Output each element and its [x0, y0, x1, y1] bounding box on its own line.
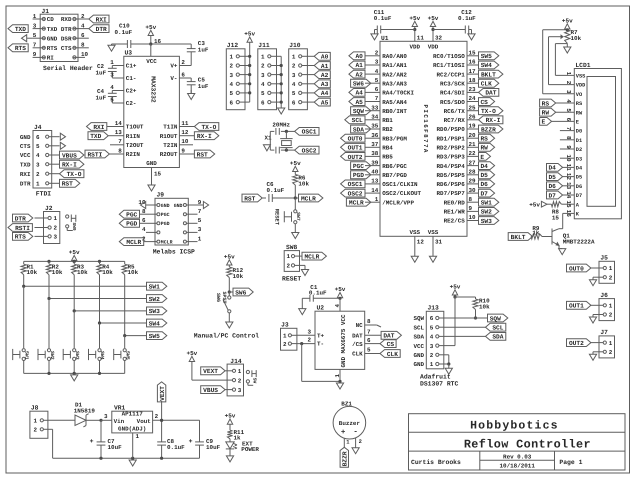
svg-text:19: 19	[469, 123, 477, 130]
wire U2 GND pin 1	[334, 369, 341, 383]
svg-text:+5v: +5v	[186, 350, 197, 357]
svg-text:25: 25	[469, 104, 477, 111]
svg-text:J6: J6	[600, 292, 608, 299]
net flag BKLT (Q1)	[508, 233, 532, 241]
net arrow (J4 pin 5)	[60, 142, 65, 149]
net flag OUT1 (J6)	[567, 301, 591, 309]
ground (C1)	[299, 309, 306, 315]
net flag OUT1 (U1 pin 37)	[341, 143, 365, 151]
svg-text:10k: 10k	[571, 35, 582, 42]
ground (power section)	[129, 460, 136, 466]
svg-text:RESET: RESET	[274, 209, 280, 226]
net flag RSTI (U3)	[85, 147, 124, 158]
svg-text:OUT0: OUT0	[348, 136, 363, 143]
title block	[409, 414, 626, 470]
svg-text:24: 24	[469, 95, 477, 102]
svg-text:C1: C1	[310, 284, 318, 291]
svg-text:C1+: C1+	[126, 63, 137, 70]
ground (U1 pin 31 VSS)	[429, 236, 442, 262]
svg-text:+5v: +5v	[409, 15, 420, 22]
svg-text:RX-I: RX-I	[486, 117, 501, 124]
connector J9 Melabs ICSP	[138, 192, 201, 256]
net flag OSC2 (X1)	[295, 146, 319, 154]
svg-text:T2IN: T2IN	[163, 142, 178, 149]
net flag OUT2 (U1 pin 38)	[341, 153, 365, 161]
svg-text:RX-I: RX-I	[62, 162, 77, 169]
wire GND rows (J13)	[444, 355, 451, 369]
+5v supply (power LED)	[225, 413, 236, 431]
svg-text:POWER: POWER	[241, 446, 259, 453]
svg-text:RS: RS	[542, 100, 550, 107]
wire +5v bus (switch pull-ups)	[24, 260, 125, 263]
ground (J6)	[589, 317, 596, 323]
svg-text:RC3/SCK: RC3/SCK	[440, 81, 465, 88]
svg-text:CS: CS	[387, 341, 395, 348]
ground (power LED)	[226, 456, 233, 462]
svg-text:2: 2	[261, 63, 265, 70]
net flag SW6 (manual)	[229, 288, 253, 296]
+5v supply (U1 pin 11)	[409, 15, 424, 41]
svg-text:1uF: 1uF	[96, 70, 107, 77]
svg-text:DAT: DAT	[485, 90, 496, 97]
resistor R10 10k	[455, 297, 490, 320]
IC U1 PIC16F877A	[380, 35, 467, 237]
svg-text:TX-O: TX-O	[201, 124, 216, 131]
net flag D6 (LCD pin 13)	[547, 182, 575, 190]
svg-text:30: 30	[469, 187, 477, 194]
svg-text:35: 35	[371, 123, 379, 130]
svg-text:4: 4	[261, 81, 265, 88]
svg-text:10/18/2011: 10/18/2011	[500, 463, 536, 470]
net flag OUT0 (J5)	[567, 264, 591, 272]
svg-text:A4: A4	[355, 90, 363, 97]
svg-text:RC7/RX: RC7/RX	[444, 117, 466, 124]
net flag SCL (J13)	[486, 323, 506, 331]
svg-text:D5: D5	[548, 174, 556, 181]
svg-text:R1IN: R1IN	[126, 133, 141, 140]
svg-text:AP1117: AP1117	[122, 411, 144, 418]
svg-text:1: 1	[334, 374, 341, 378]
svg-text:VDD: VDD	[576, 83, 586, 89]
net flag D5 (LCD pin 12)	[547, 173, 575, 181]
svg-text:DSR: DSR	[61, 35, 72, 42]
svg-text:26: 26	[469, 114, 477, 121]
svg-text:10: 10	[181, 138, 189, 145]
svg-text:D7: D7	[480, 190, 488, 197]
svg-text:V-: V-	[170, 75, 177, 82]
svg-text:1: 1	[230, 54, 234, 61]
connector J14	[227, 358, 243, 396]
svg-text:Vout: Vout	[137, 418, 151, 425]
net flag A4 (U1 pin 6)	[349, 89, 365, 97]
svg-text:GND MAX6675 VCC: GND MAX6675 VCC	[340, 314, 347, 367]
svg-text:RS: RS	[576, 101, 583, 107]
svg-text:-: -	[353, 428, 358, 436]
svg-text:3: 3	[33, 22, 37, 29]
svg-text:2: 2	[34, 427, 38, 434]
net flag SW6 (U1 pin 5)	[351, 79, 371, 87]
svg-text:0.1uF: 0.1uF	[167, 444, 185, 451]
svg-text:J2: J2	[45, 205, 53, 212]
svg-text:1: 1	[375, 196, 379, 203]
svg-text:5: 5	[33, 32, 37, 39]
svg-text:4: 4	[81, 22, 85, 29]
svg-text:C1-: C1-	[126, 75, 137, 82]
+5v supply (switch pull-ups)	[69, 249, 80, 261]
svg-text:GND: GND	[161, 203, 170, 209]
svg-text:10k: 10k	[27, 269, 38, 276]
svg-text:TXD: TXD	[15, 26, 26, 33]
svg-text:RD5/PSP5: RD5/PSP5	[437, 172, 466, 179]
svg-text:9: 9	[469, 205, 473, 212]
svg-text:10: 10	[469, 214, 477, 221]
svg-text:OSC2: OSC2	[302, 147, 317, 154]
net flag RX-I (U1 pin 26)	[479, 116, 503, 124]
resistor R4 10k	[97, 261, 113, 323]
ground (SW6)	[226, 322, 233, 328]
svg-text:17: 17	[469, 68, 477, 75]
pin stub D2 (LCD pin 9)	[560, 148, 574, 150]
svg-text:CD: CD	[47, 16, 55, 23]
svg-text:RA2/AN2: RA2/AN2	[382, 71, 407, 78]
svg-text:T1OUT: T1OUT	[126, 124, 144, 131]
net flag SW3 (U1 pin 10)	[479, 217, 499, 225]
svg-text:5: 5	[375, 77, 379, 84]
svg-text:GND: GND	[413, 361, 424, 368]
svg-text:T+: T+	[317, 333, 325, 340]
svg-text:OSC1: OSC1	[302, 129, 317, 136]
net flag E (LCD)	[540, 118, 575, 126]
svg-text:1: 1	[110, 59, 114, 66]
svg-text:32: 32	[435, 34, 443, 41]
svg-text:U1: U1	[381, 35, 389, 42]
svg-text:C2+: C2+	[126, 88, 137, 95]
svg-text:6: 6	[430, 315, 434, 322]
svg-text:5: 5	[430, 324, 434, 331]
svg-text:FTDI: FTDI	[36, 191, 52, 198]
svg-text:6: 6	[230, 99, 234, 106]
svg-text:11: 11	[181, 120, 189, 127]
ground (U1 pin 12 VSS)	[411, 236, 424, 262]
svg-text:RC4/SDI: RC4/SDI	[440, 90, 465, 97]
svg-text:RB5: RB5	[382, 154, 393, 161]
net flag A4 (J10)	[307, 89, 330, 97]
svg-text:+5v: +5v	[428, 15, 439, 22]
svg-text:1: 1	[292, 54, 296, 61]
svg-text:BKLT: BKLT	[511, 234, 526, 241]
connector J5	[590, 255, 615, 284]
svg-text:RA5/AN4: RA5/AN4	[382, 99, 407, 106]
svg-text:RE0/RD: RE0/RD	[444, 199, 466, 206]
pin stub D3 (LCD pin 10)	[560, 157, 574, 159]
connector J8	[30, 405, 48, 439]
svg-text:DTR: DTR	[20, 181, 31, 188]
pushbutton SW2	[38, 349, 55, 374]
svg-text:SQW: SQW	[413, 315, 424, 322]
svg-text:1k: 1k	[234, 435, 242, 442]
svg-text:SW1: SW1	[24, 351, 30, 360]
svg-text:CLK: CLK	[481, 81, 492, 88]
svg-text:9: 9	[33, 51, 37, 58]
svg-text:2: 2	[238, 377, 242, 384]
svg-text:SQW: SQW	[490, 315, 501, 322]
svg-text:1: 1	[609, 340, 613, 347]
svg-text:4: 4	[230, 81, 234, 88]
svg-text:Curtis Brooks: Curtis Brooks	[411, 459, 461, 466]
svg-text:PIC16F877A: PIC16F877A	[422, 105, 429, 154]
+5v supply (U1 pin 32)	[428, 15, 443, 41]
connector J2	[35, 205, 60, 244]
wire Vout rail	[153, 413, 200, 422]
svg-text:15: 15	[154, 170, 162, 177]
svg-text:3: 3	[230, 72, 234, 79]
svg-text:1: 1	[609, 303, 613, 310]
svg-text:RST: RST	[197, 151, 208, 158]
svg-text:OSC2: OSC2	[348, 190, 363, 197]
svg-text:2: 2	[609, 349, 613, 356]
svg-text:RC2/CCP1: RC2/CCP1	[437, 71, 466, 78]
svg-text:RXI: RXI	[20, 171, 31, 178]
svg-text:SW: SW	[251, 378, 257, 384]
svg-text:SW4: SW4	[481, 62, 492, 69]
svg-text:PGC: PGC	[161, 212, 170, 218]
net flag D7 (LCD pin 14)	[547, 191, 575, 199]
svg-text:R2IN: R2IN	[126, 151, 141, 158]
pushbutton SW3	[63, 349, 80, 374]
crystal X1 20MHz	[265, 122, 295, 154]
potentiometer R7 10k (LCD contrast)	[561, 29, 582, 47]
svg-text:SW5: SW5	[481, 53, 492, 60]
net flag TXD (U3)	[88, 129, 124, 140]
svg-text:RD0/PSP0: RD0/PSP0	[437, 126, 466, 133]
svg-text:3: 3	[36, 161, 40, 168]
capacitor C9 10uF	[189, 420, 221, 458]
svg-text:6: 6	[375, 86, 379, 93]
svg-text:13: 13	[371, 178, 379, 185]
svg-text:CTS: CTS	[20, 143, 31, 150]
wire ground bus (switch array)	[24, 372, 125, 375]
svg-text:10: 10	[81, 51, 89, 58]
svg-text:SW1: SW1	[481, 200, 492, 207]
svg-text:9: 9	[181, 147, 185, 154]
LED EXT POWER	[226, 441, 260, 456]
svg-text:D6: D6	[548, 183, 556, 190]
net flag A2 (J10)	[307, 71, 330, 79]
net flag OUT0 (U1 pin 36)	[341, 134, 365, 142]
pin stub NC (U2 pin 8)	[365, 318, 381, 327]
svg-text:SW5: SW5	[125, 351, 131, 360]
svg-text:VDD: VDD	[409, 43, 420, 50]
svg-text:RESET: RESET	[282, 276, 301, 283]
svg-text:RC1/T1OSI: RC1/T1OSI	[433, 62, 465, 69]
IC U2 MAX6675	[315, 305, 365, 370]
svg-text:5: 5	[198, 217, 202, 224]
svg-text:SQW: SQW	[353, 108, 364, 115]
net flag D5 (U1 pin 28)	[479, 171, 495, 179]
net flag A5 (J10)	[307, 98, 330, 106]
pushbutton SW1	[13, 349, 30, 374]
svg-text:TXD: TXD	[47, 26, 58, 33]
connector J1 Serial Header	[33, 8, 93, 72]
net flag DTR (J2)	[13, 214, 33, 222]
net flag PGC (U1 pin 39)	[351, 162, 371, 170]
svg-text:18: 18	[469, 77, 477, 84]
svg-text:27: 27	[469, 159, 477, 166]
svg-text:GND: GND	[146, 160, 157, 167]
svg-text:T1IN: T1IN	[163, 124, 178, 131]
wire SCL row (J13)	[444, 326, 486, 328]
svg-text:D5: D5	[576, 175, 582, 181]
svg-text:RI: RI	[47, 55, 55, 62]
svg-text:2: 2	[359, 439, 362, 445]
svg-text:1uF: 1uF	[96, 95, 107, 102]
net flag PGC (J9)	[119, 210, 146, 218]
svg-text:CLK: CLK	[387, 351, 398, 358]
svg-text:4: 4	[292, 81, 296, 88]
svg-text:RXI: RXI	[96, 16, 107, 23]
svg-text:1: 1	[430, 361, 434, 368]
net flag SCL (U1 pin 34)	[345, 116, 365, 124]
svg-text:RB2: RB2	[382, 126, 393, 133]
connector J12	[226, 42, 249, 110]
svg-text:A0: A0	[355, 53, 363, 60]
svg-text:J11: J11	[258, 42, 270, 49]
svg-text:SW5: SW5	[149, 333, 160, 340]
svg-text:/MCLR/VPP: /MCLR/VPP	[382, 199, 414, 206]
svg-text:3: 3	[198, 226, 202, 233]
svg-text:2: 2	[36, 171, 40, 178]
svg-text:RX-I: RX-I	[197, 133, 212, 140]
svg-text:Vin: Vin	[114, 418, 125, 425]
wire J3 pin2 to U2 T-	[297, 337, 340, 382]
svg-text:RW: RW	[480, 145, 488, 152]
svg-text:Buzzer: Buzzer	[339, 420, 361, 427]
ground (J13)	[445, 368, 452, 374]
svg-text:1: 1	[287, 253, 291, 260]
svg-text:D4: D4	[480, 163, 488, 170]
ground (C12)	[468, 34, 475, 40]
svg-text:0.1uF: 0.1uF	[115, 29, 133, 36]
net flag OSC1 (X1)	[295, 128, 319, 136]
svg-text:J5: J5	[600, 255, 608, 262]
svg-text:RB4: RB4	[382, 145, 393, 152]
svg-text:RST: RST	[62, 181, 73, 188]
ground (C10)	[108, 45, 115, 51]
svg-text:21: 21	[469, 141, 477, 148]
svg-text:0.1uF: 0.1uF	[458, 15, 476, 22]
svg-text:E: E	[541, 119, 545, 126]
svg-text:CTS: CTS	[61, 45, 72, 52]
svg-text:1uF: 1uF	[198, 47, 209, 54]
svg-text:3: 3	[54, 234, 58, 241]
net flag RX-I (J4)	[60, 160, 84, 168]
net flag BZZR (vertical, BZ1)	[340, 447, 349, 467]
svg-text:7: 7	[33, 42, 37, 49]
svg-text:PGC: PGC	[353, 163, 364, 170]
svg-text:3: 3	[430, 343, 434, 350]
svg-text:D4: D4	[548, 165, 556, 172]
svg-text:VBUS: VBUS	[203, 387, 218, 394]
capacitor C7 10uF	[90, 420, 123, 458]
svg-text:1N5819: 1N5819	[74, 408, 96, 415]
svg-text:16: 16	[469, 59, 477, 66]
svg-text:GND: GND	[174, 203, 183, 209]
svg-text:SW6: SW6	[215, 293, 221, 302]
net flag VEXT (J14)	[201, 367, 227, 375]
net flag SW1 (switch array)	[147, 282, 167, 290]
ground (C11)	[371, 34, 378, 40]
svg-text:RD2/PSP2: RD2/PSP2	[437, 145, 466, 152]
svg-text:MCLR: MCLR	[161, 240, 173, 246]
svg-text:OUT1: OUT1	[569, 303, 584, 310]
svg-text:SW8: SW8	[286, 244, 298, 251]
svg-text:2: 2	[430, 352, 434, 359]
net flag SQW (J13)	[488, 314, 508, 322]
svg-text:D3: D3	[576, 156, 582, 162]
svg-text:C2-: C2-	[126, 100, 137, 107]
svg-text:D0: D0	[576, 129, 582, 135]
svg-text:SW4: SW4	[99, 351, 105, 360]
pushbutton SW10 (J14 jumper)	[246, 370, 257, 385]
pushbutton SW5	[114, 349, 131, 374]
svg-text:Reflow Controller: Reflow Controller	[464, 438, 591, 452]
pushbutton SW4	[89, 349, 106, 374]
svg-text:RTS: RTS	[15, 234, 26, 241]
net flag TX-O (J4)	[60, 170, 84, 178]
svg-text:RB0/INT: RB0/INT	[382, 108, 407, 115]
svg-text:RSTI: RSTI	[15, 225, 30, 232]
regulator VR1 AP1117	[112, 405, 153, 433]
resistor R11 1k	[227, 429, 244, 442]
+5v supply (J14 pin 2)	[186, 350, 227, 380]
svg-text:J13: J13	[428, 305, 440, 312]
svg-text:DAT: DAT	[383, 333, 394, 340]
svg-text:3: 3	[308, 328, 312, 335]
svg-text:SW3: SW3	[74, 351, 80, 360]
svg-text:SCL: SCL	[413, 324, 424, 331]
ground (BZ1)	[352, 448, 359, 454]
svg-text:3: 3	[261, 72, 265, 79]
connector J11	[258, 42, 281, 110]
svg-text:2: 2	[292, 63, 296, 70]
svg-text:5: 5	[110, 97, 114, 104]
svg-text:15: 15	[552, 214, 560, 221]
resistor R1 10k	[21, 261, 37, 286]
svg-text:RB6/PGC: RB6/PGC	[382, 163, 407, 170]
svg-text:VCC: VCC	[413, 343, 424, 350]
capacitor C1 0.1uF	[302, 284, 341, 309]
svg-text:RTS: RTS	[15, 45, 26, 52]
svg-text:36: 36	[371, 132, 379, 139]
resistor R12 10k	[227, 267, 244, 294]
+5v supply (R6)	[290, 160, 301, 175]
net flag RST (J4)	[60, 179, 80, 187]
svg-text:4: 4	[430, 334, 434, 341]
svg-text:E: E	[480, 154, 484, 161]
+5v supply (J12)	[244, 31, 255, 43]
svg-text:SCL: SCL	[492, 325, 503, 332]
svg-text:Serial Header: Serial Header	[43, 65, 93, 72]
svg-text:VCC: VCC	[146, 58, 157, 65]
svg-text:U3: U3	[125, 50, 133, 57]
pin stub D1 (LCD pin 8)	[560, 139, 574, 141]
ground (SW7)	[292, 233, 299, 239]
svg-text:RA4/T0CKI: RA4/T0CKI	[382, 90, 414, 97]
svg-text:Adafruit: Adafruit	[420, 374, 451, 381]
svg-text:TX-O: TX-O	[481, 108, 496, 115]
svg-text:1uF: 1uF	[198, 83, 209, 90]
capacitor C6 0.1uF	[267, 181, 297, 202]
